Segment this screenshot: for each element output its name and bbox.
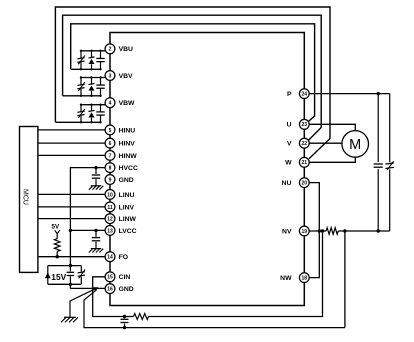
svg-text:VBV: VBV: [119, 73, 133, 80]
wire bootstrap VBW bottom rail: [55, 121, 101, 123]
svg-text:22: 22: [302, 141, 308, 147]
capacitor bootstrap electrolytic VBV: [77, 78, 84, 96]
wire 15V box bottom rail: [48, 283, 82, 285]
wire MCU to LINW: [38, 218, 105, 220]
battery 15V supply: [45, 266, 51, 285]
wire LVCC (pin 13) to 15V rail: [70, 229, 105, 231]
capacitor 15V electrolytic: [78, 266, 85, 285]
resistor FO pull-up: [54, 239, 60, 252]
node LVCC decoupling junction: [94, 229, 97, 232]
svg-text:LINU: LINU: [119, 192, 135, 199]
IC body (inverter power module) outline: [110, 33, 304, 306]
node bus cap positive junction: [377, 92, 380, 95]
resistor shunt: [326, 228, 338, 234]
terminal 5V supply arrow: [55, 230, 60, 238]
wire CIN filter to shunt node: [149, 231, 323, 317]
wire MCU to LINU: [38, 193, 105, 195]
pin 15 CIN: [105, 272, 130, 282]
label 15V: [51, 272, 66, 282]
pin 20 NU: [282, 178, 310, 188]
wire HVCC (pin 8) to 15V rail: [70, 168, 105, 266]
svg-text:NV: NV: [282, 228, 292, 235]
svg-text:9: 9: [109, 177, 112, 183]
label 5V supply: [52, 224, 60, 231]
wire power ground riser: [344, 231, 346, 328]
svg-text:LINV: LINV: [119, 204, 135, 211]
node FO pull-up junction: [56, 255, 59, 258]
capacitor HVCC decoupling: [92, 168, 100, 186]
svg-text:7: 7: [109, 153, 112, 159]
svg-text:3: 3: [109, 73, 112, 79]
wire CIN line to filter resistor: [125, 316, 134, 318]
svg-text:15: 15: [107, 275, 113, 281]
capacitor CIN filter: [121, 317, 129, 328]
capacitor LVCC decoupling: [92, 230, 100, 248]
node CIN filter cap bottom junction: [123, 326, 126, 329]
wire CIN (pin 15) sense line: [93, 277, 125, 317]
svg-text:P: P: [287, 91, 292, 98]
node bootstrap VBW junctions: [80, 104, 102, 124]
wire MCU to LINV: [38, 206, 105, 208]
pin 11 LINV: [105, 202, 134, 212]
pin 5 HINU: [105, 125, 135, 135]
diode bootstrap VBW: [88, 105, 94, 123]
ground HVCC decoupling: [89, 186, 103, 190]
wire star-point to signal ground: [70, 289, 95, 317]
svg-text:13: 13: [107, 228, 113, 234]
svg-text:GND: GND: [119, 286, 134, 293]
pin 6 HINV: [105, 138, 135, 148]
svg-text:15V: 15V: [51, 272, 66, 282]
svg-text:5V: 5V: [52, 224, 60, 231]
svg-text:12: 12: [107, 217, 113, 223]
MCU block: [20, 127, 38, 273]
svg-text:19: 19: [302, 229, 308, 235]
wire W-phase over-the-top (pin 21 to VBW bootstrap): [55, 7, 330, 159]
pin 14 FO: [105, 252, 128, 262]
wire NW (pin 18) to shunt node: [309, 231, 319, 278]
wire MCU to FO (pin 14): [38, 256, 105, 258]
wire bootstrap VBV top rail: [81, 77, 105, 79]
capacitor DC bus film: [374, 94, 383, 231]
node shunt left junction: [318, 229, 325, 232]
ground signal ground: [61, 317, 78, 322]
svg-text:VBU: VBU: [119, 46, 133, 53]
svg-text:M: M: [349, 137, 361, 153]
capacitor bootstrap ceramic VBW: [96, 105, 104, 123]
wire bootstrap VBU bottom rail: [71, 68, 101, 70]
wire V-phase over-the-top (pin 22 to VBV bootstrap): [63, 15, 322, 140]
svg-text:NW: NW: [280, 275, 292, 282]
capacitor bootstrap ceramic VBU: [96, 51, 104, 70]
svg-text:16: 16: [107, 287, 113, 293]
pin 2 VBU: [105, 44, 133, 54]
wire V (pin 22) to motor: [309, 142, 342, 144]
svg-text:HINU: HINU: [119, 127, 136, 134]
svg-text:LVCC: LVCC: [119, 228, 137, 235]
wire NU (pin 20) to shunt node: [309, 183, 319, 231]
pin 19 NV: [282, 226, 309, 236]
wire 15V box top rail: [48, 265, 82, 267]
pin 3 VBV: [105, 71, 133, 81]
svg-text:HINW: HINW: [119, 153, 138, 160]
svg-text:V: V: [287, 141, 292, 148]
wire bootstrap VBW top rail: [81, 104, 105, 106]
svg-text:U: U: [287, 122, 292, 129]
diode bootstrap VBU: [88, 51, 94, 70]
resistor CIN filter: [134, 314, 149, 320]
node bootstrap VBV junctions: [80, 76, 102, 97]
svg-text:6: 6: [109, 141, 112, 147]
pin 4 VBW: [105, 98, 135, 108]
wire FO pull-up to FO line: [56, 251, 58, 256]
svg-text:LINW: LINW: [119, 216, 137, 223]
svg-text:10: 10: [107, 192, 113, 198]
capacitor 15V filter: [67, 266, 75, 289]
wire star-point to power ground rail: [84, 290, 345, 328]
capacitor bootstrap electrolytic VBU: [77, 51, 84, 70]
wire NV (pin 19) to shunt: [309, 230, 326, 232]
wire shunt to DC bus negative: [338, 230, 390, 232]
pin 8 HVCC: [105, 163, 138, 173]
pin 9 GND: [105, 175, 134, 185]
node CIN filter cap top junction: [123, 315, 126, 318]
pin 18 NW: [280, 273, 309, 283]
capacitor DC bus electrolytic: [386, 94, 394, 231]
pin 24 P: [287, 89, 309, 99]
svg-text:2: 2: [109, 47, 112, 53]
pin 22 V: [287, 138, 309, 148]
ground LVCC decoupling: [89, 249, 103, 253]
svg-text:CIN: CIN: [119, 274, 131, 281]
pin 7 HINW: [105, 151, 137, 161]
svg-text:HINV: HINV: [119, 141, 136, 148]
node 15V top rail junction: [69, 264, 72, 267]
svg-text:8: 8: [109, 166, 112, 172]
wire W (pin 21) to motor: [309, 157, 355, 162]
pin 12 LINW: [105, 214, 136, 224]
pin 16 GND: [105, 284, 134, 294]
svg-text:18: 18: [302, 276, 308, 282]
svg-text:4: 4: [109, 101, 112, 107]
svg-text:5: 5: [109, 128, 112, 134]
node 15V cap bottom junction: [69, 283, 72, 286]
svg-text:GND: GND: [119, 177, 134, 184]
capacitor bootstrap ceramic VBV: [96, 78, 104, 96]
svg-text:11: 11: [107, 205, 113, 211]
pin 23 U: [287, 119, 310, 129]
svg-text:24: 24: [302, 92, 308, 98]
node HVCC decoupling junction: [94, 166, 97, 169]
wire bootstrap VBV bottom rail: [63, 95, 101, 97]
wire U-phase over-the-top (pin 23 to VBU bootstrap): [71, 24, 315, 122]
svg-text:HVCC: HVCC: [119, 165, 138, 172]
wire U (pin 23) to motor: [309, 124, 355, 130]
wire P (pin 24) to DC bus positive: [309, 93, 390, 95]
svg-text:NU: NU: [282, 180, 292, 187]
pin 13 LVCC: [105, 226, 137, 236]
node bootstrap VBU junctions: [80, 50, 102, 71]
node LVCC rail junction: [69, 229, 72, 232]
svg-text:23: 23: [302, 122, 308, 128]
svg-text:MCU: MCU: [22, 189, 29, 205]
node GND star-point: [93, 287, 99, 291]
wire bootstrap VBU top rail: [81, 50, 105, 52]
pin 21 W: [285, 157, 309, 167]
node shunt right junction: [343, 229, 346, 232]
svg-text:VBW: VBW: [119, 100, 135, 107]
wire GND (pin 16) to 15V return: [70, 287, 105, 289]
capacitor bootstrap electrolytic VBW: [77, 105, 84, 123]
svg-text:W: W: [285, 160, 292, 167]
wire MCU to HINW: [38, 154, 105, 156]
node bus cap negative junction: [377, 229, 380, 232]
svg-text:FO: FO: [119, 254, 128, 261]
wire MCU to HINV: [38, 142, 105, 144]
svg-text:14: 14: [107, 255, 113, 261]
pin 10 LINU: [105, 190, 134, 200]
svg-text:20: 20: [302, 181, 308, 187]
wire MCU to HINU: [38, 129, 105, 131]
diode bootstrap VBV: [88, 78, 94, 96]
svg-text:21: 21: [302, 160, 308, 166]
motor M: [342, 131, 369, 158]
